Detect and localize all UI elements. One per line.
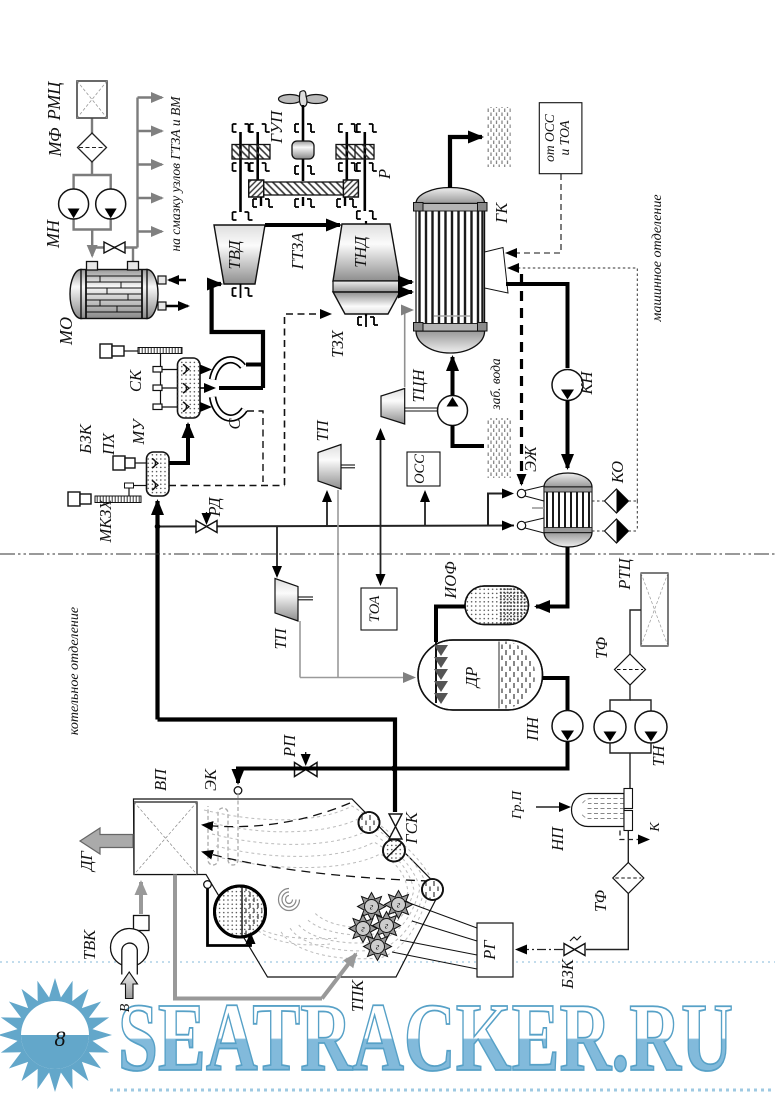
quick closing valve БЗК [564,944,585,956]
svg-text:ПХ: ПХ [99,432,118,456]
branch to lower ТП [276,526,278,576]
sea chest заб. вода [487,418,511,478]
svg-text:котельное отделение: котельное отделение [67,607,82,735]
ion filter ИОФ [465,586,529,625]
svg-text:ТФ: ТФ [592,637,611,659]
pump МН (right) [96,189,126,219]
svg-text:8: 8 [55,1026,66,1051]
gray exhaust line ТЦН turbine to ГК [405,310,412,387]
auxiliary steam line with РД [158,526,515,527]
svg-text:С: С [225,418,244,430]
water circulation circle (furnace screen header) [215,886,266,937]
ТЦН discharge to ГК [451,357,455,396]
reducing valve РД [196,521,217,533]
svg-text:КН: КН [577,370,596,395]
dashed line from С to astern line [247,411,263,482]
svg-text:МКЗХ: МКЗХ [96,499,115,544]
box ОСС [407,452,440,486]
svg-text:ДГ: ДГ [77,850,96,872]
main steam pipe С to ТВД [212,284,263,388]
main steam line boiler to МУ [158,720,396,770]
svg-text:ТП: ТП [313,419,332,441]
svg-text:на смазку узлов ГТЗА и ВМ: на смазку узлов ГТЗА и ВМ [168,96,183,252]
turbine ТЗХ [333,292,400,314]
svg-text:РП: РП [280,734,299,758]
ejector condenser ЭЖ [544,473,592,547]
fuel line РТЦ to ТФ [630,610,641,655]
condensate drain К [620,831,648,840]
exhaust arrows ТНД to ГК [400,280,412,284]
svg-text:ТВД: ТВД [225,239,244,269]
coupling below ТЗХ [358,314,378,327]
svg-text:МФ: МФ [45,127,65,158]
flue gas streamlines [204,806,432,959]
svg-text:ГСК: ГСК [402,811,421,844]
fan ТВК [111,916,150,975]
propeller ГУП [279,91,328,107]
СК actuator and stem [100,344,124,358]
dotted lines ЭЖ to КО [592,501,637,531]
svg-text:ТН: ТН [649,744,668,766]
dashed drain line from от ОСС и ТОА to air cooler [507,174,561,253]
box от ОСС и ТОА [539,103,582,174]
svg-text:ТНД: ТНД [351,235,370,268]
condensate ЭЖ to ИОФ [536,547,568,607]
burners ТПК [358,893,386,921]
maneuvering device С arcs [213,360,245,418]
filter МФ [78,133,107,162]
svg-text:заб. вода: заб. вода [488,358,503,411]
svg-text:ОСС: ОСС [412,454,428,484]
МУ to СК steam pipe [169,424,188,463]
main steam riser to МУ [155,501,159,720]
couplings above pinions [233,124,377,132]
fuel filter ТФ upper [615,654,646,685]
section separator line [0,553,775,555]
fuel line to БЗК [586,894,628,950]
svg-text:ГК: ГК [492,202,511,224]
deaerator ДР [418,640,543,710]
couplings below main gear [253,199,357,207]
economizer ЭК coil [208,794,238,865]
feed regulator РП [295,763,318,777]
svg-text:ТЗХ: ТЗХ [328,329,347,357]
svg-text:ПН: ПН [523,716,542,742]
svg-text:К: К [648,822,663,833]
svg-text:РТЦ: РТЦ [615,557,634,590]
svg-text:МУ: МУ [129,418,148,446]
svg-text:и ТОА: и ТОА [557,120,572,156]
fuel heater НП [572,789,633,831]
ТНД exhaust band [333,281,400,292]
svg-text:ТЦН: ТЦН [409,368,428,402]
pinion gear boxes right [336,145,374,160]
coupling below thrust bearing [295,166,315,174]
overboard thick dashed line [520,274,523,484]
svg-text:ТФ: ТФ [591,890,610,912]
svg-text:ТПК: ТПК [348,979,367,1012]
svg-text:от ОСС: от ОСС [542,113,557,162]
pump ПН [552,711,583,742]
couplings below pinion boxes [233,163,377,171]
svg-text:г: г [370,902,374,912]
control line БЗК to РГ [517,949,563,951]
watermark sun logo [0,978,112,1092]
air cooling section on ГК [485,248,508,294]
turbine drive of ТЦН [381,389,405,425]
oil cooler МО [70,262,166,319]
watermark dotted line bottom [110,1089,775,1092]
turbine ТНД [333,224,400,281]
fuel heating box РТЦ [641,573,668,646]
coupling below ТВД [233,284,253,298]
tank РМЦ [77,81,107,118]
svg-text:БЗК: БЗК [76,423,95,455]
gas swirl [279,889,300,911]
thrust bearing [292,141,314,159]
turbine ТВД [214,225,265,284]
feed line to economizer [238,769,395,784]
branch to upper ТП [326,492,328,526]
oil supply header with arrows [138,98,163,248]
svg-text:ГУП: ГУП [267,110,286,144]
downcomer line [204,881,212,889]
ИОФ to ДР line [436,607,465,643]
svg-text:НП: НП [548,826,567,852]
pump МН (left) [59,189,89,219]
svg-text:РМЦ: РМЦ [44,81,64,122]
feed line ПН to boiler [395,742,568,769]
turbo blower ТП lower [275,579,298,622]
КН to ЭЖ line [566,401,570,469]
svg-text:ДР: ДР [462,667,481,690]
condenser ГК shell [414,187,488,353]
turbo blower ТП upper [318,445,341,490]
ТЦН suction from sea chest [453,426,485,447]
fuel line НП down [627,831,629,864]
svg-text:МН: МН [43,219,63,249]
steam drum [359,812,380,833]
branch to ОСС [424,492,426,526]
svg-text:машинное отделение: машинное отделение [650,194,665,322]
СК internal valves [183,365,189,412]
steam line down to ГСК [393,769,397,812]
main gear wheel Р [249,182,359,195]
cooling water outlet arrow [166,305,188,308]
ЭЖ steam nozzles [525,486,544,501]
burner control box РГ [477,923,513,977]
dotted air line from air cooler to КО [509,268,637,501]
svg-text:Р: Р [375,169,394,180]
ТНД shaft [365,221,367,316]
main stop valve ГСК [389,814,402,839]
svg-text:ТВК: ТВК [80,929,99,960]
burner fuel lines [392,901,477,969]
pump ТЦН [438,396,468,426]
fuel filter ТФ lower [613,863,644,894]
svg-text:В: В [118,1003,133,1012]
МКЗХ actuator [68,492,91,506]
ПХ actuator [113,456,135,470]
svg-text:ЭЖ: ЭЖ [521,445,540,472]
svg-text:Гр.П: Гр.П [510,790,525,820]
gray exhaust lines ТП to ДР [300,490,414,678]
steam line ТЦН turbine and ТОА [380,430,382,500]
valve on oil line [104,242,125,253]
cooling water inlet arrow [169,279,186,282]
svg-text:РД: РД [205,496,224,517]
box ТОА [361,588,397,630]
svg-text:ВП: ВП [151,768,170,791]
fuel pumps ТН [610,685,630,711]
air duct ТВК to ВП [139,882,143,914]
dashed astern line from МУ [169,485,285,487]
air duct ВП to furnace [175,875,322,999]
svg-text:ЭК: ЭК [201,768,220,791]
gland steam stub to ЭЖ [532,507,544,509]
air inlet В block arrow [121,972,138,999]
maneuvering device С pipes [219,386,263,390]
svg-text:СК: СК [126,369,145,392]
flue gas dashed lines to ВП [203,803,430,881]
propeller shaft [302,105,305,141]
ДР to ПН suction [543,678,568,710]
left pinion shafts [239,132,242,212]
atmosphere exhaust hatched box [487,107,511,167]
svg-text:ТП: ТП [271,627,290,649]
watermark dotted line top [0,961,775,963]
steam supply to nozzles [488,494,512,526]
coupling on prop shaft [295,124,315,132]
steam exhaust pipe to atmosphere [450,137,482,188]
couplings above turbines [233,211,377,220]
stop valve block СК [178,358,201,418]
svg-text:МО: МО [56,317,76,346]
steam pipe ТВД to ТНД [265,223,340,227]
maneuvering valve block МУ [147,452,170,496]
right pinion shafts [345,132,348,181]
svg-text:ИОФ: ИОФ [441,561,460,599]
exhaust gas ДГ block arrow [80,828,133,854]
svg-text:ТОА: ТОА [367,596,383,623]
pump КН [552,370,583,401]
boiler casing outline [134,799,442,977]
svg-text:БЗК: БЗК [558,958,577,990]
heating steam Гр.П [536,806,569,808]
air valves КО [605,489,629,543]
condensate line air cooler to КН [506,284,568,368]
air preheater ВП [134,802,197,875]
СК outlet arrows to С [200,370,214,408]
water drum [422,879,443,900]
svg-text:ГТЗА: ГТЗА [288,232,307,271]
pinion gear boxes left [232,145,270,160]
oil lines РМЦ-МФ-МН [74,118,138,262]
svg-text:КО: КО [608,461,627,484]
svg-text:РГ: РГ [480,940,499,961]
dashed astern steam line to ТЗХ [285,314,331,485]
